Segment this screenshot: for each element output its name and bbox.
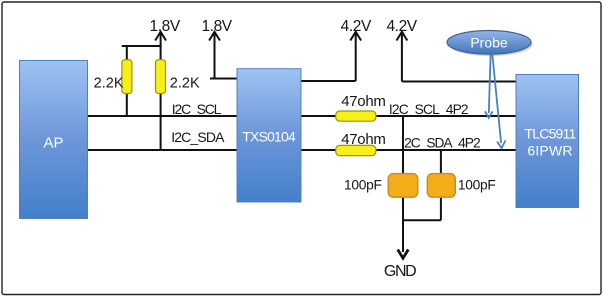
svg-text:I2C_SDA: I2C_SDA <box>171 129 225 145</box>
svg-text:TXS0104: TXS0104 <box>242 129 296 145</box>
svg-text:1.8V: 1.8V <box>150 18 181 35</box>
svg-text:GND: GND <box>384 263 416 280</box>
svg-text:1.8V: 1.8V <box>201 18 232 35</box>
svg-text:I2C_SCL: I2C_SCL <box>172 101 222 117</box>
svg-text:47ohm: 47ohm <box>341 131 385 148</box>
svg-text:100pF: 100pF <box>458 178 496 193</box>
svg-text:4.2V: 4.2V <box>386 18 417 35</box>
svg-text:2.2K: 2.2K <box>170 76 200 92</box>
svg-text:I2C_SDA_4P2: I2C_SDA_4P2 <box>401 136 480 151</box>
svg-text:I2C_SCL_4P2: I2C_SCL_4P2 <box>389 102 468 117</box>
svg-text:6IPWR: 6IPWR <box>527 143 572 159</box>
svg-text:TLC5911: TLC5911 <box>525 126 577 142</box>
svg-text:100pF: 100pF <box>344 178 382 193</box>
svg-text:2.2K: 2.2K <box>94 76 124 92</box>
svg-text:47ohm: 47ohm <box>341 93 385 110</box>
svg-text:AP: AP <box>43 135 63 152</box>
svg-text:Probe: Probe <box>470 35 508 51</box>
svg-text:4.2V: 4.2V <box>341 18 372 35</box>
